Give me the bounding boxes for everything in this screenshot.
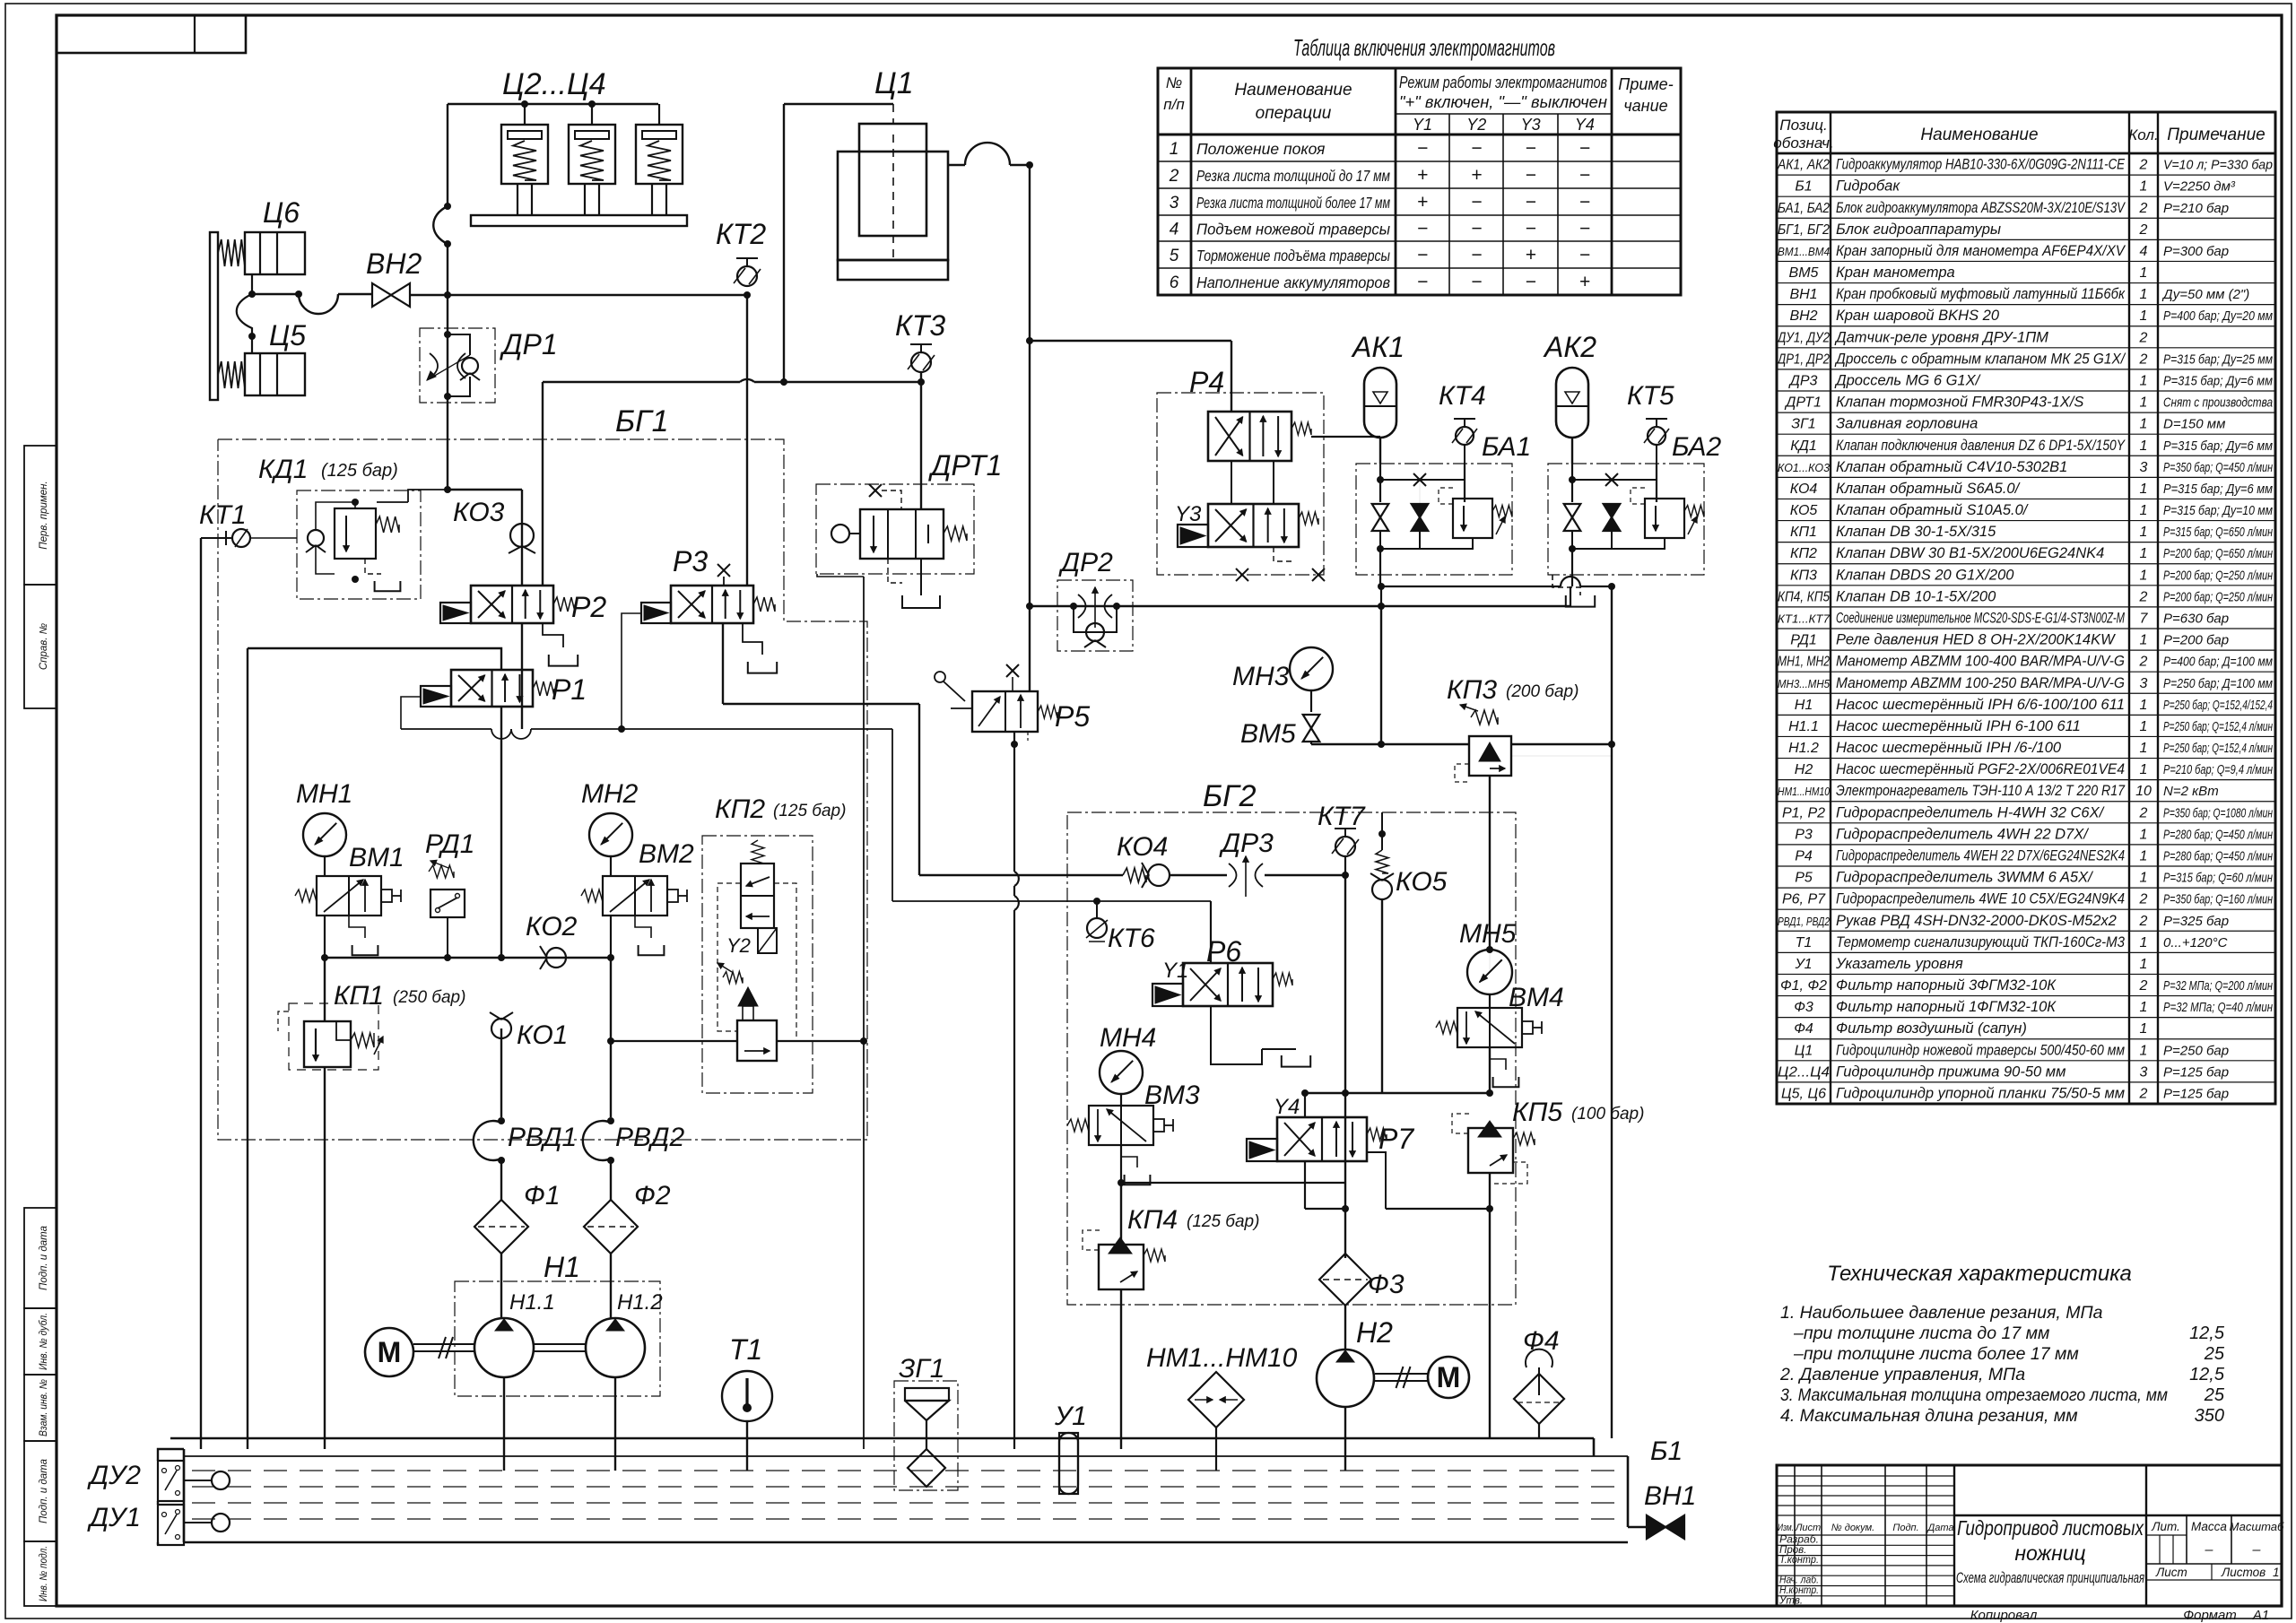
svg-text:Клапан DBW 30 B1-5X/200U6EG24N: Клапан DBW 30 B1-5X/200U6EG24NK4	[1836, 545, 2104, 561]
svg-text:МН3: МН3	[1232, 662, 1290, 691]
svg-text:Гидроцилиндр упорной планки 75: Гидроцилиндр упорной планки 75/50-5 мм	[1836, 1086, 2125, 1102]
svg-text:ДУ1: ДУ1	[87, 1503, 141, 1532]
wire down from Ц2...Ц4 to ВН2 line	[447, 187, 448, 206]
svg-text:Насос шестерённый IPH /6-/100: Насос шестерённый IPH /6-/100	[1836, 740, 2062, 756]
test point КТ2	[736, 257, 758, 259]
hand valve Р5	[972, 691, 1038, 732]
svg-text:ДР1: ДР1	[500, 328, 558, 360]
svg-text:P=400 бар; Д=100 мм: P=400 бар; Д=100 мм	[2163, 655, 2273, 670]
svg-text:Р3: Р3	[1795, 827, 1813, 842]
svg-text:КТ4: КТ4	[1439, 381, 1486, 411]
svg-text:Подп. и дата: Подп. и дата	[39, 1459, 49, 1523]
pressure valve КД1	[297, 490, 421, 599]
valve Р2	[471, 586, 553, 623]
motor М of Н2	[1375, 1373, 1428, 1375]
tank Б1	[170, 1437, 1594, 1440]
svg-text:Н2: Н2	[1795, 762, 1813, 777]
svg-text:Клапан обратный S10A5.0/: Клапан обратный S10A5.0/	[1836, 502, 2029, 518]
svg-text:МН1: МН1	[296, 779, 352, 809]
clamp cylinder group Ц2...Ц4	[524, 104, 526, 125]
filter Ф1	[474, 1200, 528, 1254]
svg-text:Датчик-реле уровня ДРУ-1ПМ: Датчик-реле уровня ДРУ-1ПМ	[1834, 329, 2048, 345]
svg-text:Перв. примен.: Перв. примен.	[39, 481, 49, 549]
wire БА2 output down to tank	[1571, 549, 1573, 586]
svg-text:P=200 бар; Q=250 л/мин: P=200 бар; Q=250 л/мин	[2163, 589, 2273, 604]
svg-text:У1: У1	[1794, 957, 1812, 972]
wire МН5 column	[1489, 776, 1491, 950]
svg-text:КТ5: КТ5	[1627, 381, 1674, 411]
drain below ВМ1	[349, 916, 365, 938]
svg-text:Фильтр напорный 1ФГМ32-10К: Фильтр напорный 1ФГМ32-10К	[1836, 999, 2057, 1015]
top-left stamp box	[57, 15, 246, 53]
svg-text:P=200 бар; Q=250 л/мин: P=200 бар; Q=250 л/мин	[2163, 568, 2273, 583]
svg-text:P=280 бар; Q=450 л/мин: P=280 бар; Q=450 л/мин	[2163, 827, 2273, 842]
svg-text:БА2: БА2	[1672, 432, 1722, 462]
block БГ1 boundary	[218, 439, 867, 1140]
check valve КО1	[491, 1019, 511, 1038]
relief valve КП3	[1381, 743, 1469, 745]
svg-text:КД1: КД1	[258, 455, 309, 484]
svg-text:Ф1, Ф2: Ф1, Ф2	[1780, 978, 1827, 994]
svg-text:1: 1	[2140, 957, 2148, 972]
svg-text:4: 4	[2140, 244, 2148, 259]
svg-text:Р2: Р2	[571, 591, 606, 623]
svg-text:НМ1...НМ10: НМ1...НМ10	[1778, 785, 1831, 798]
svg-text:1: 1	[2140, 1000, 2148, 1015]
svg-text:−: −	[1471, 272, 1482, 292]
wire КД1 to ДР1 node	[408, 490, 448, 502]
svg-text:АК1, АК2: АК1, АК2	[1777, 158, 1830, 173]
level gauge У1	[1059, 1433, 1078, 1494]
svg-text:3. Максимальная толщина отреза: 3. Максимальная толщина отрезаемого лист…	[1780, 1385, 2168, 1405]
svg-text:Копировал: Копировал	[1970, 1608, 2038, 1623]
svg-text:(100 бар): (100 бар)	[1571, 1105, 1644, 1124]
svg-text:Р5: Р5	[1795, 871, 1813, 886]
svg-text:Ц5: Ц5	[269, 319, 306, 352]
svg-text:Манометр ABZMM 100-400 BAR/MPA: Манометр ABZMM 100-400 BAR/MPA-U/V-G	[1836, 654, 2125, 670]
svg-text:п/п: п/п	[1163, 96, 1185, 113]
svg-text:4: 4	[1170, 221, 1179, 239]
gauge valve ВМ5	[1310, 690, 1312, 712]
svg-text:Т1: Т1	[1796, 935, 1813, 950]
drain below ВМ2	[635, 916, 651, 938]
svg-text:(125 бар): (125 бар)	[1187, 1212, 1259, 1231]
svg-text:ВМ1: ВМ1	[349, 843, 404, 872]
svg-text:Электронагреватель ТЭН-110 А 1: Электронагреватель ТЭН-110 А 13/2 Т 220 …	[1836, 783, 2126, 799]
svg-text:(250 бар): (250 бар)	[393, 988, 465, 1007]
svg-text:2. Давление управления, МПа: 2. Давление управления, МПа	[1779, 1365, 2025, 1384]
svg-text:Дроссель MG 6 G1X/: Дроссель MG 6 G1X/	[1834, 373, 1981, 389]
svg-text:Ц2...Ц4: Ц2...Ц4	[1778, 1064, 1830, 1080]
valve Р4 pilot stage	[1208, 412, 1291, 461]
svg-text:БГ1, БГ2: БГ1, БГ2	[1778, 222, 1830, 238]
svg-text:Т1: Т1	[729, 1333, 762, 1366]
svg-text:Ц1: Ц1	[874, 66, 914, 100]
pump Н1.1	[474, 1318, 534, 1377]
svg-text:Гидроцилиндр ножевой траверсы: Гидроцилиндр ножевой траверсы 500/450-60…	[1836, 1042, 2125, 1058]
svg-text:КО2: КО2	[526, 912, 578, 942]
drain below Р3	[743, 623, 762, 655]
svg-text:0...+120°С: 0...+120°С	[2163, 935, 2228, 950]
svg-text:Лист: Лист	[2155, 1566, 2187, 1579]
svg-text:Изм.: Изм.	[1778, 1523, 1794, 1533]
svg-text:МН1, МН2: МН1, МН2	[1778, 655, 1830, 670]
svg-text:Ц5, Ц6: Ц5, Ц6	[1781, 1087, 1826, 1102]
svg-text:7: 7	[2140, 612, 2149, 627]
svg-text:КП4, КП5: КП4, КП5	[1778, 589, 1830, 604]
pump Н2	[1344, 1306, 1346, 1350]
svg-text:Клапан обратный S6A5.0/: Клапан обратный S6A5.0/	[1836, 481, 2021, 497]
svg-text:КО1: КО1	[517, 1020, 568, 1050]
relief valve КП2 main stage	[738, 987, 758, 1006]
svg-text:МН3...МН5: МН3...МН5	[1778, 677, 1831, 690]
svg-text:Наименование: Наименование	[1920, 126, 2038, 144]
wire КП4 to tank	[1120, 1289, 1122, 1449]
svg-text:Р1, Р2: Р1, Р2	[1782, 805, 1825, 820]
block БГ2 boundary	[1067, 812, 1516, 1305]
svg-text:КТ1: КТ1	[199, 500, 247, 530]
wire Р1 down	[500, 707, 502, 958]
svg-text:КТ7: КТ7	[1318, 802, 1366, 831]
svg-text:ДУ1, ДУ2: ДУ1, ДУ2	[1776, 330, 1830, 345]
motor М of Н1	[365, 1328, 413, 1376]
svg-text:Блок гидроаккумулятора ABZSS20: Блок гидроаккумулятора ABZSS20M-3X/210E/…	[1836, 200, 2126, 216]
svg-text:+: +	[1525, 245, 1535, 265]
svg-text:2: 2	[2139, 655, 2148, 670]
wire Ц6 port	[251, 274, 253, 294]
wire БГ1 top horizontal	[543, 381, 740, 383]
drain below ДРТ1	[920, 559, 922, 595]
svg-text:КД1: КД1	[1790, 438, 1817, 454]
svg-text:Р5: Р5	[1055, 700, 1090, 733]
test point КТ1	[221, 537, 231, 539]
level sensor ДУ1	[158, 1505, 184, 1545]
accumulator block БА2	[1548, 464, 1704, 575]
svg-text:2: 2	[2139, 330, 2148, 345]
svg-text:РВД1: РВД1	[508, 1123, 577, 1152]
svg-text:−: −	[1417, 138, 1428, 159]
throttle ДР3	[1229, 864, 1237, 887]
svg-text:Схема гидравлическая принципиа: Схема гидравлическая принципиальная	[1956, 1570, 2144, 1586]
valve Р4 block	[1157, 393, 1324, 575]
svg-text:Н1.1: Н1.1	[1788, 719, 1819, 734]
svg-text:1: 1	[2140, 849, 2148, 864]
svg-text:Н1: Н1	[544, 1251, 580, 1283]
svg-text:Ц6: Ц6	[263, 196, 300, 229]
svg-text:1: 1	[2140, 417, 2148, 432]
svg-text:−: −	[1579, 192, 1590, 213]
left margin stamp column	[24, 446, 57, 585]
svg-text:Клапан DB 10-1-5X/200: Клапан DB 10-1-5X/200	[1836, 588, 1996, 604]
svg-text:Наполнение аккумуляторов: Наполнение аккумуляторов	[1196, 273, 1390, 291]
svg-text:Подъем ножевой траверсы: Подъем ножевой траверсы	[1196, 221, 1390, 239]
vertical return line left	[247, 648, 248, 1449]
valve Р3	[671, 586, 753, 623]
svg-text:(200 бар): (200 бар)	[1506, 682, 1578, 701]
wire Р2 down	[521, 623, 523, 729]
svg-text:5: 5	[1170, 247, 1179, 265]
svg-text:РВД1, РВД2: РВД1, РВД2	[1778, 915, 1831, 928]
svg-text:P=315 бар; Ду=6 мм: P=315 бар; Ду=6 мм	[2163, 438, 2273, 454]
svg-text:ДРТ1: ДРТ1	[928, 449, 1002, 482]
svg-text:НМ1...НМ10: НМ1...НМ10	[1146, 1343, 1298, 1373]
svg-text:Р1: Р1	[552, 673, 587, 706]
svg-text:1: 1	[2140, 482, 2148, 497]
svg-text:Реле давления HED 8 OH-2X/200K: Реле давления HED 8 OH-2X/200K14KW	[1836, 632, 2116, 648]
svg-text:КО4: КО4	[1117, 832, 1168, 862]
svg-text:Кол.: Кол.	[2128, 126, 2158, 143]
svg-text:Положение покоя: Положение покоя	[1196, 140, 1325, 158]
svg-text:−: −	[1417, 245, 1428, 265]
svg-text:Масштаб: Масштаб	[2230, 1520, 2284, 1533]
svg-text:P=350 бар; Q=1080 л/мин: P=350 бар; Q=1080 л/мин	[2163, 805, 2273, 820]
svg-text:1: 1	[2140, 546, 2148, 561]
svg-text:25: 25	[2204, 1344, 2225, 1364]
svg-text:Торможение подъёма траверсы: Торможение подъёма траверсы	[1196, 247, 1390, 265]
svg-text:−: −	[1525, 192, 1535, 213]
svg-text:P=125 бар: P=125 бар	[2163, 1087, 2229, 1102]
wire ВМ2 to bus	[610, 916, 612, 958]
svg-text:+: +	[1471, 165, 1482, 186]
relief valve КП4	[1099, 1245, 1144, 1289]
svg-text:1: 1	[2140, 741, 2148, 756]
svg-text:КО4: КО4	[1790, 482, 1818, 497]
svg-text:−: −	[1471, 192, 1482, 213]
svg-text:Р4: Р4	[1795, 849, 1813, 864]
electromagnet table	[1158, 68, 1681, 295]
svg-text:1: 1	[2140, 179, 2148, 195]
wire left port to Р1	[248, 648, 501, 670]
svg-text:Формат: Формат	[2183, 1608, 2237, 1623]
svg-text:P=200 бар: P=200 бар	[2163, 633, 2229, 648]
check valve КО5	[1376, 850, 1388, 873]
svg-text:−: −	[1471, 245, 1482, 265]
svg-text:(125 бар): (125 бар)	[773, 802, 846, 820]
svg-text:Фильтр напорный 3ФГМ32-10К: Фильтр напорный 3ФГМ32-10К	[1836, 977, 2057, 994]
svg-text:Гидропривод листовых: Гидропривод листовых	[1957, 1516, 2144, 1540]
svg-text:−: −	[1579, 138, 1590, 159]
svg-text:Ф3: Ф3	[1794, 1000, 1813, 1015]
svg-text:P=250 бар: P=250 бар	[2163, 1043, 2229, 1058]
wire top bus to clamp cylinders	[448, 103, 658, 105]
svg-text:ВМ5: ВМ5	[1789, 265, 1819, 281]
wire Р5 supply from main	[1029, 606, 1031, 691]
svg-text:–при толщине листа до 17 мм: –при толщине листа до 17 мм	[1793, 1324, 2049, 1343]
svg-text:1: 1	[2140, 287, 2148, 302]
svg-text:Ц1: Ц1	[1795, 1043, 1813, 1058]
svg-text:Н1: Н1	[1795, 698, 1813, 713]
svg-text:Таблица включения электромагни: Таблица включения электромагнитов	[1293, 34, 1555, 61]
svg-text:ДРТ1: ДРТ1	[1784, 395, 1822, 411]
svg-text:Ф4: Ф4	[1794, 1021, 1813, 1037]
svg-text:–: –	[2205, 1542, 2213, 1558]
svg-text:Гидробак: Гидробак	[1836, 178, 1900, 195]
svg-text:Техническая характеристика: Техническая характеристика	[1827, 1262, 2132, 1286]
svg-text:P=325 бар: P=325 бар	[2163, 914, 2229, 929]
svg-text:РД1: РД1	[1790, 633, 1817, 648]
tank left notch	[158, 1449, 184, 1461]
svg-text:КП3: КП3	[1790, 568, 1817, 583]
svg-text:ЗГ1: ЗГ1	[1791, 417, 1815, 432]
wire to ВН2	[252, 293, 299, 295]
svg-text:КП4: КП4	[1127, 1205, 1178, 1235]
svg-text:Листов: Листов	[2221, 1566, 2266, 1579]
pilot wire Р3	[622, 613, 641, 729]
svg-text:Y3: Y3	[1175, 502, 1202, 526]
svg-text:P=300 бар: P=300 бар	[2163, 244, 2229, 259]
svg-text:Т.контр.: Т.контр.	[1779, 1555, 1819, 1566]
pressure main to БА blocks	[1030, 605, 1570, 607]
title block	[1777, 1465, 2282, 1606]
svg-text:V=2250 дм³: V=2250 дм³	[2163, 179, 2236, 195]
svg-text:Гидроцилиндр прижима 90-50 мм: Гидроцилиндр прижима 90-50 мм	[1836, 1063, 2066, 1080]
svg-text:Приме-: Приме-	[1618, 75, 1673, 93]
svg-text:Н.контр.: Н.контр.	[1779, 1585, 1819, 1596]
svg-text:6: 6	[1170, 273, 1179, 292]
svg-text:3: 3	[2140, 1064, 2148, 1080]
svg-text:P=350 бар; Q=450 л/мин: P=350 бар; Q=450 л/мин	[2163, 460, 2273, 475]
svg-text:V=10 л; P=330 бар: V=10 л; P=330 бар	[2163, 158, 2273, 173]
svg-text:Гидрораспределитель 4WH 22 D7X: Гидрораспределитель 4WH 22 D7X/	[1836, 826, 2089, 842]
wire ДР1 down to КД1 node	[447, 403, 448, 490]
svg-text:Масса: Масса	[2191, 1520, 2227, 1533]
wire Ц1 right port	[948, 164, 965, 166]
svg-text:Фильтр воздушный (сапун): Фильтр воздушный (сапун)	[1836, 1020, 2027, 1037]
svg-text:Взам. инв. №: Взам. инв. №	[39, 1379, 49, 1436]
svg-text:Справ. №: Справ. №	[39, 622, 49, 670]
filter Ф3	[1319, 1254, 1371, 1306]
svg-text:−: −	[1579, 245, 1590, 265]
Р4 drains	[1236, 568, 1248, 581]
svg-text:P=32 МПа; Q=200 л/мин: P=32 МПа; Q=200 л/мин	[2163, 978, 2273, 994]
svg-text:ДУ2: ДУ2	[87, 1461, 141, 1490]
wire Р3 work port to БГ2	[722, 623, 724, 704]
accumulator АК1	[1364, 368, 1396, 438]
svg-text:Соединение измерительное MCS20: Соединение измерительное MCS20-SDS-E-G1/…	[1836, 611, 2125, 627]
svg-text:Нач. лаб.: Нач. лаб.	[1779, 1575, 1819, 1586]
wire КТ2 riser	[746, 295, 748, 586]
svg-text:ДР3: ДР3	[1219, 829, 1274, 858]
svg-text:КП2: КП2	[715, 794, 765, 824]
throttle-check ДР1	[420, 328, 495, 403]
svg-text:Кран шаровой BKHS 20: Кран шаровой BKHS 20	[1836, 308, 2000, 324]
svg-text:Клапан подключения давления DZ: Клапан подключения давления DZ 6 DP1-5X/…	[1836, 438, 2126, 454]
svg-text:Дроссель с обратным клапаном М: Дроссель с обратным клапаном МК 25 G1X/	[1834, 351, 2126, 367]
svg-text:обознач.: обознач.	[1773, 135, 1833, 152]
pump unit Н1 boundary	[455, 1281, 660, 1396]
hose Ц6-Ц5 junction	[237, 294, 252, 336]
ball valve ВН1	[1647, 1515, 1665, 1539]
svg-text:ВМ1...ВМ4: ВМ1...ВМ4	[1778, 245, 1830, 258]
svg-text:2: 2	[2139, 892, 2148, 907]
hose РВД2	[610, 958, 612, 1117]
svg-text:1: 1	[2140, 762, 2148, 777]
drain below Р6	[1211, 1006, 1262, 1064]
svg-text:Пров.: Пров.	[1779, 1545, 1806, 1556]
throttle-check ДР2	[1057, 580, 1133, 651]
svg-text:ВМ2: ВМ2	[639, 839, 694, 869]
stop-plate wall	[210, 232, 218, 400]
svg-text:Клапан DB 30-1-5X/315: Клапан DB 30-1-5X/315	[1836, 524, 1996, 540]
svg-text:2: 2	[2139, 222, 2148, 238]
svg-text:КО1...КО3: КО1...КО3	[1778, 461, 1831, 474]
wire БА1 output	[1379, 549, 1381, 586]
gauge МН2	[589, 813, 632, 856]
wire ВМ1 to bus	[324, 916, 326, 958]
svg-text:1: 1	[2140, 438, 2148, 454]
svg-text:Y3: Y3	[1521, 116, 1541, 134]
svg-text:2: 2	[2139, 158, 2148, 173]
svg-text:12,5: 12,5	[2189, 1365, 2225, 1384]
svg-text:Дата: Дата	[1926, 1523, 1953, 1533]
svg-text:КО3: КО3	[453, 498, 505, 527]
svg-text:P=200 бар; Q=650 л/мин: P=200 бар; Q=650 л/мин	[2163, 546, 2273, 561]
svg-text:Подп.: Подп.	[1892, 1523, 1918, 1533]
svg-text:ДР3: ДР3	[1788, 374, 1818, 389]
svg-text:КО5: КО5	[1396, 867, 1448, 897]
wire ВМ3 column to КП4	[1120, 1145, 1122, 1183]
svg-text:P=210 бар; Q=9,4 л/мин: P=210 бар; Q=9,4 л/мин	[2163, 762, 2273, 777]
svg-text:Ф2: Ф2	[634, 1181, 671, 1211]
svg-text:Манометр ABZMM 100-250 BAR/MPA: Манометр ABZMM 100-250 BAR/MPA-U/V-G	[1836, 675, 2125, 691]
svg-text:М: М	[378, 1336, 402, 1368]
drain below ВМ3	[1121, 1145, 1137, 1167]
svg-text:Гидроаккумулятор НАВ10-330-6X/: Гидроаккумулятор НАВ10-330-6X/0G09G-2N11…	[1836, 157, 2126, 173]
svg-text:Кран запорный для манометра AF: Кран запорный для манометра AF6EP4X/XV	[1836, 243, 2126, 259]
svg-text:Инв. № подл.: Инв. № подл.	[39, 1546, 49, 1601]
svg-text:Подп. и дата: Подп. и дата	[39, 1226, 49, 1290]
svg-text:№: №	[1166, 74, 1182, 91]
wire КП2 main line to pump column	[611, 1040, 737, 1042]
gauge valve ВМ3	[1120, 1094, 1122, 1106]
svg-text:Термометр сигнализирующий ТКП-: Термометр сигнализирующий ТКП-160Сг-М3	[1836, 934, 2126, 950]
accumulator block БА1	[1356, 464, 1512, 575]
svg-text:БА1: БА1	[1482, 432, 1531, 462]
svg-text:P=210 бар: P=210 бар	[2163, 201, 2229, 216]
svg-text:+: +	[1417, 192, 1428, 213]
svg-text:Насос шестерённый IPH 6-100 61: Насос шестерённый IPH 6-100 611	[1836, 718, 2081, 734]
svg-text:P=250 бар; Q=152,4/152,4: P=250 бар; Q=152,4/152,4	[2163, 698, 2273, 713]
svg-text:Y1: Y1	[1413, 116, 1432, 134]
svg-text:Резка листа толщиной более 17: Резка листа толщиной более 17 мм	[1196, 194, 1390, 212]
svg-text:25: 25	[2204, 1385, 2225, 1405]
test point КТ7	[1335, 828, 1356, 829]
level sensor ДУ2	[158, 1461, 184, 1501]
wire МН1 branch down through КП1	[324, 958, 326, 1021]
svg-text:2: 2	[2139, 914, 2148, 929]
svg-text:2: 2	[2139, 805, 2148, 820]
svg-text:БГ1: БГ1	[615, 404, 669, 438]
svg-text:1: 1	[2140, 1021, 2148, 1037]
svg-text:Ф1: Ф1	[524, 1181, 561, 1211]
heaters НМ1...НМ10	[1188, 1372, 1244, 1428]
svg-text:ДР1, ДР2: ДР1, ДР2	[1776, 352, 1830, 367]
svg-text:1: 1	[2140, 935, 2148, 950]
svg-text:Ду=50 мм (2"): Ду=50 мм (2")	[2161, 287, 2249, 302]
check valve КО2	[546, 948, 566, 968]
svg-text:P=315 бар; Q=60 л/мин: P=315 бар; Q=60 л/мин	[2163, 871, 2273, 886]
svg-text:Н1.1: Н1.1	[509, 1290, 555, 1315]
svg-text:−: −	[1525, 219, 1535, 239]
svg-text:Н2: Н2	[1356, 1316, 1393, 1349]
svg-text:−: −	[1579, 165, 1590, 186]
svg-text:ВН1: ВН1	[1644, 1481, 1696, 1511]
svg-text:Н1.2: Н1.2	[1788, 741, 1819, 756]
svg-text:КП5: КП5	[1512, 1098, 1562, 1127]
svg-text:1: 1	[2140, 633, 2148, 648]
svg-text:Инв. № дубл.: Инв. № дубл.	[39, 1313, 49, 1370]
svg-text:ножниц: ножниц	[2014, 1541, 2085, 1565]
